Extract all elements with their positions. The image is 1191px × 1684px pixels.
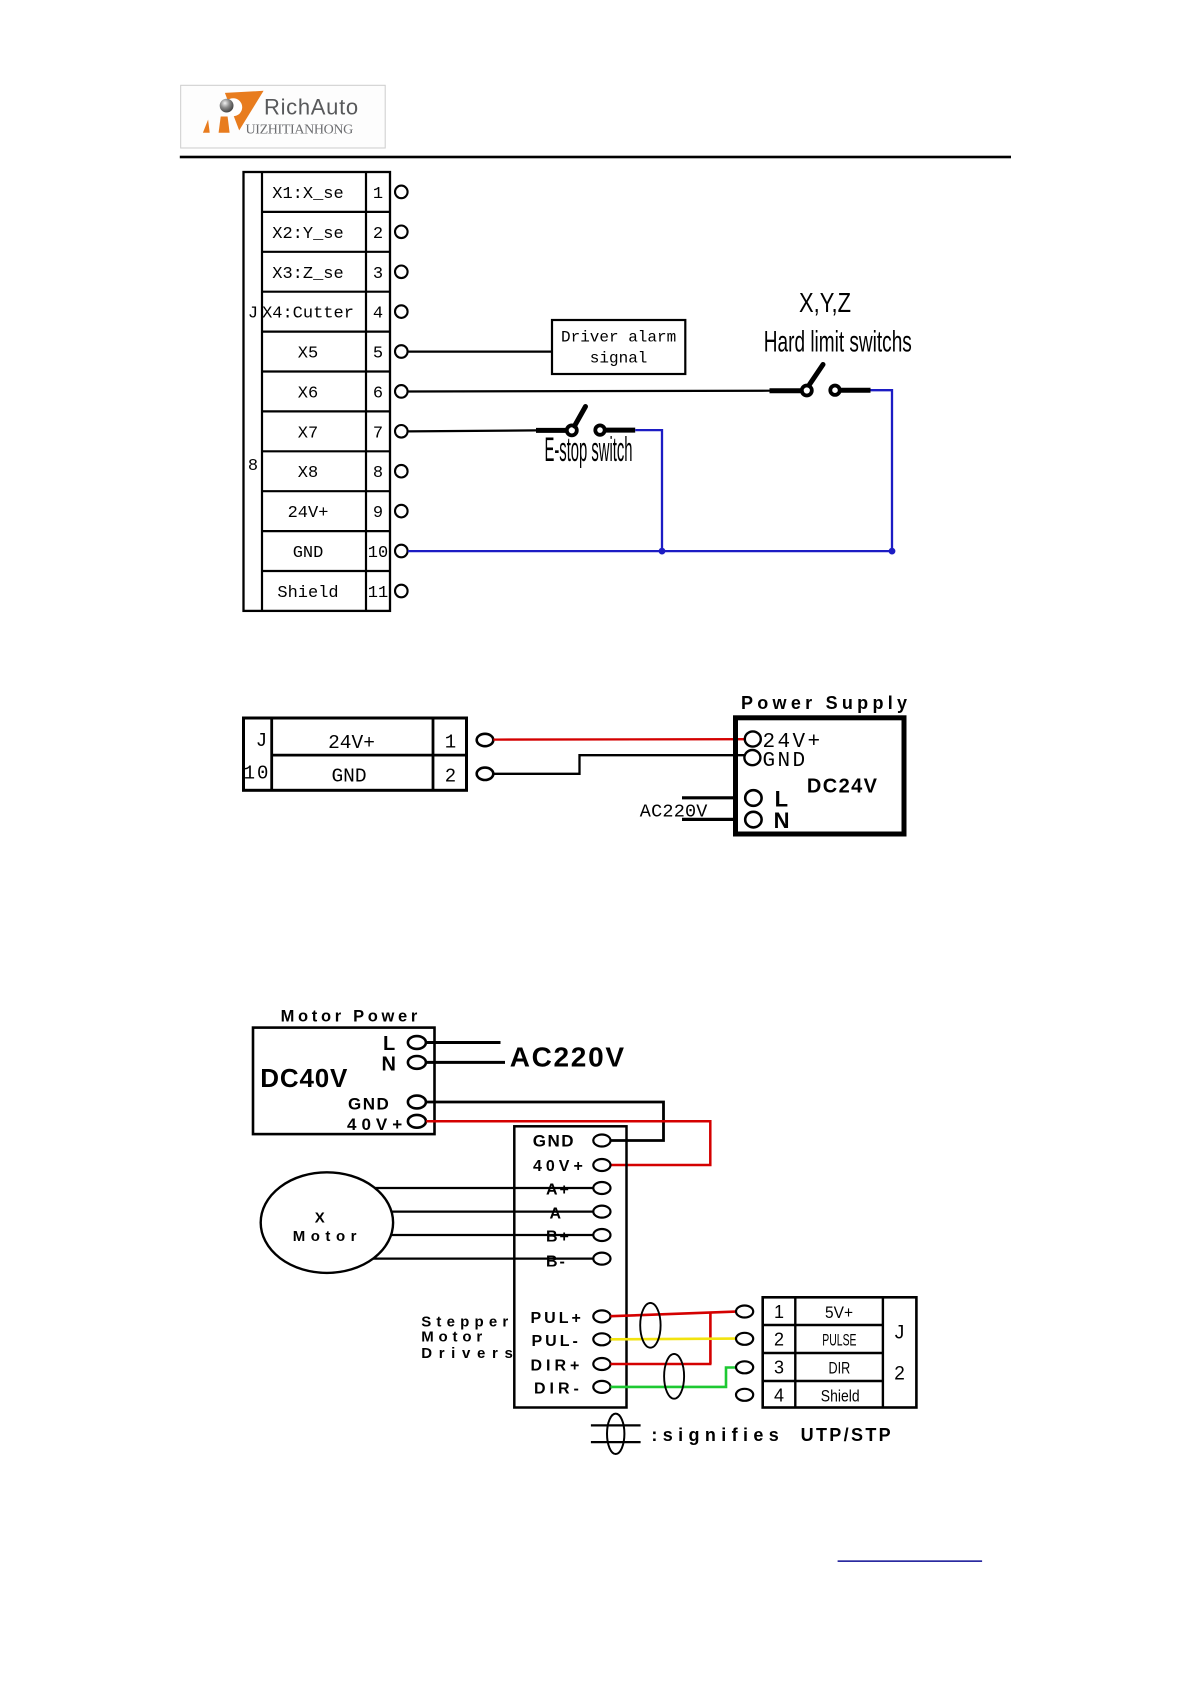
svg-text:A: A — [550, 1205, 562, 1222]
switch S1 hard limit — [770, 365, 871, 396]
svg-text:Driver alarm: Driver alarm — [561, 329, 676, 347]
svg-text:1: 1 — [445, 732, 456, 754]
wire DC40V L to AC220V — [426, 1041, 500, 1044]
wire e-stop switch to GND bus (blue) — [635, 430, 662, 551]
logo orange R mark — [203, 91, 264, 133]
connector J10 frame — [244, 718, 467, 790]
connector J2 frame — [763, 1297, 917, 1407]
wire driver DIR- to J2 pin3 (green) — [611, 1368, 737, 1387]
driver terminal DIR- — [593, 1381, 610, 1393]
footer link line — [838, 1560, 983, 1562]
svg-text:GND: GND — [348, 1095, 390, 1114]
svg-text:Hard limit switchs: Hard limit switchs — [764, 326, 912, 359]
svg-text:8: 8 — [373, 464, 383, 483]
svg-text:GND: GND — [763, 750, 808, 773]
driver terminal DIR+ — [593, 1358, 610, 1370]
J8 pin circle 6 — [395, 385, 408, 398]
connector J8 outer frame — [244, 172, 391, 611]
J8 pin circle 10 — [395, 545, 408, 558]
wire red link PUL+/DIR+ vertical — [709, 1313, 712, 1364]
svg-text:X1:X_se: X1:X_se — [272, 185, 343, 204]
driver terminal B+ — [593, 1229, 610, 1241]
header rule — [180, 156, 1011, 159]
wire J10 pin1 to PSU 24V+ (red) — [493, 738, 745, 741]
driver terminal PUL- — [593, 1333, 610, 1345]
svg-text:J: J — [248, 305, 258, 324]
svg-text:2: 2 — [894, 1364, 905, 1385]
DC40V terminal 40V+ — [408, 1115, 426, 1128]
logo sphere — [220, 99, 234, 113]
DC40V terminal L — [408, 1036, 426, 1049]
PSU terminal N — [745, 812, 761, 828]
wire GND bus from J8 pin10 (blue) — [408, 550, 892, 552]
stepper driver box — [514, 1126, 626, 1407]
driver terminal B- — [593, 1253, 610, 1265]
junction node hard-limit/GND — [889, 548, 896, 555]
legend wire lower — [591, 1441, 641, 1443]
driver terminal A — [593, 1206, 610, 1218]
svg-text:GND: GND — [331, 766, 366, 788]
PSU terminal GND — [744, 750, 760, 765]
svg-text:2: 2 — [445, 766, 456, 788]
svg-text:X6: X6 — [298, 384, 318, 403]
J10 pin circle 1 — [477, 734, 494, 746]
svg-text:DC24V: DC24V — [807, 776, 878, 798]
svg-text:DIR+: DIR+ — [531, 1358, 584, 1375]
wire J8 pin6 to hard limit switch — [408, 390, 770, 393]
wire DC40V N to AC220V — [426, 1061, 505, 1064]
J8 pin circle 3 — [395, 266, 408, 279]
svg-text:RichAuto: RichAuto — [264, 95, 359, 120]
UTP twisted pair oval 2 — [664, 1354, 684, 1399]
J10 pin circle 2 — [477, 768, 494, 780]
svg-text:3: 3 — [774, 1358, 784, 1378]
svg-text:11: 11 — [368, 584, 388, 603]
svg-text:5V+: 5V+ — [825, 1303, 853, 1322]
svg-text:N: N — [382, 1054, 396, 1076]
power supply unit box — [736, 718, 905, 834]
svg-text:X4:Cutter: X4:Cutter — [262, 305, 354, 324]
J8 pin circle 1 — [395, 186, 408, 199]
wire J8 pin7 to e-stop switch — [408, 430, 536, 431]
svg-text:40V+: 40V+ — [347, 1115, 407, 1134]
svg-text:UIZHITIANHONG: UIZHITIANHONG — [246, 123, 354, 138]
svg-text:DIR-: DIR- — [534, 1380, 583, 1397]
svg-text:A+: A+ — [546, 1182, 571, 1199]
svg-text:DIR: DIR — [829, 1359, 851, 1378]
svg-text:L: L — [383, 1033, 395, 1055]
svg-text:PUL-: PUL- — [532, 1333, 581, 1350]
svg-text:Shield: Shield — [821, 1386, 860, 1405]
J2 pin circle 1 — [736, 1306, 753, 1318]
svg-text:1: 1 — [774, 1302, 784, 1322]
svg-text:X,Y,Z: X,Y,Z — [799, 287, 851, 318]
svg-text:DC40V: DC40V — [260, 1063, 348, 1093]
wire motor to driver A+ — [375, 1187, 594, 1189]
UTP twisted pair oval 1 — [640, 1303, 660, 1348]
wire driver DIR+ horizontal (red) — [611, 1363, 712, 1366]
svg-text:B+: B+ — [546, 1229, 571, 1246]
svg-text:8: 8 — [248, 457, 258, 476]
wire J10 pin2 to PSU GND — [493, 755, 744, 774]
PSU terminal L — [745, 790, 761, 806]
J2 pin circle 2 — [736, 1333, 753, 1345]
wire motor to driver B- — [373, 1257, 593, 1259]
wire DC40V 40V+ to driver 40V+ (red) — [426, 1121, 710, 1165]
wire hard limit switch to GND bus (blue) — [871, 390, 893, 551]
svg-text:J: J — [256, 730, 267, 752]
svg-text:X: X — [315, 1210, 325, 1227]
J8 pin circle 9 — [395, 505, 408, 518]
svg-text:Motor Power: Motor Power — [281, 1008, 418, 1026]
svg-text:4: 4 — [373, 305, 383, 324]
svg-text:Shield: Shield — [277, 584, 338, 603]
svg-text:3: 3 — [373, 265, 383, 284]
driver terminal 40V+ — [593, 1159, 610, 1171]
wire driver PUL- to J2 pin2 (yellow) — [611, 1337, 737, 1340]
svg-text:GND: GND — [533, 1132, 575, 1151]
svg-text:6: 6 — [373, 384, 383, 403]
J2 pin circle 4 — [736, 1389, 753, 1401]
svg-text:10: 10 — [368, 544, 388, 563]
svg-text:signal: signal — [590, 350, 648, 368]
switch S2 e-stop — [536, 407, 635, 436]
J8 pin circle 8 — [395, 465, 408, 478]
driver terminal PUL+ — [593, 1310, 610, 1322]
svg-text:5: 5 — [373, 345, 383, 364]
logo frame RichAuto — [181, 85, 386, 148]
svg-text:2: 2 — [373, 225, 383, 244]
svg-text:B-: B- — [546, 1254, 567, 1271]
DC40V terminal GND — [408, 1096, 426, 1109]
wire J8 pin5 to driver alarm box — [408, 351, 552, 353]
svg-text:E-stop switch: E-stop switch — [545, 431, 633, 469]
svg-text:X8: X8 — [298, 464, 318, 483]
svg-text:10: 10 — [244, 763, 271, 785]
driver terminal GND — [593, 1135, 610, 1147]
DC40V terminal N — [408, 1056, 426, 1069]
junction node e-stop/GND — [659, 548, 666, 555]
svg-text:X3:Z_se: X3:Z_se — [272, 265, 343, 284]
J8 pin circle 2 — [395, 226, 408, 239]
svg-text:X5: X5 — [298, 345, 318, 364]
legend twisted pair oval — [607, 1414, 624, 1454]
J8 pin circle 7 — [395, 425, 408, 438]
svg-text::signifies: :signifies — [651, 1425, 778, 1445]
J8 pin circle 5 — [395, 345, 408, 358]
svg-text:N: N — [774, 808, 790, 833]
svg-text:24V+: 24V+ — [288, 504, 329, 523]
svg-text:24V+: 24V+ — [328, 732, 375, 754]
svg-text:J: J — [895, 1323, 905, 1344]
wire DC40V GND to driver GND — [426, 1102, 663, 1141]
svg-text:2: 2 — [774, 1329, 784, 1349]
svg-text:X7: X7 — [298, 424, 318, 443]
svg-text:AC220V: AC220V — [510, 1042, 626, 1073]
wire driver PUL+ to J2 pin1 (red) — [611, 1312, 737, 1317]
svg-text:7: 7 — [373, 424, 383, 443]
svg-text:PUL+: PUL+ — [531, 1310, 584, 1327]
svg-text:X2:Y_se: X2:Y_se — [272, 225, 343, 244]
svg-text:1: 1 — [373, 185, 383, 204]
svg-text:PULSE: PULSE — [822, 1330, 856, 1349]
wire motor to driver B+ — [391, 1234, 593, 1236]
driver alarm signal box — [552, 320, 685, 374]
svg-text:GND: GND — [293, 544, 324, 563]
driver terminal A+ — [593, 1182, 610, 1194]
svg-text:40V+: 40V+ — [533, 1158, 587, 1175]
J2 pin circle 3 — [736, 1361, 753, 1373]
J8 pin circle 4 — [395, 305, 408, 318]
legend wire upper — [591, 1424, 641, 1426]
PSU terminal 24V+ — [745, 731, 761, 746]
X motor ellipse — [261, 1172, 393, 1273]
svg-text:9: 9 — [373, 504, 383, 523]
wire AC220V to PSU N — [682, 818, 734, 821]
wire motor to driver A — [392, 1210, 594, 1212]
svg-text:4: 4 — [774, 1385, 784, 1405]
wire AC220V to PSU L — [682, 796, 734, 799]
J8 pin circle 11 — [395, 585, 408, 598]
motor power supply box DC40V — [253, 1028, 435, 1135]
